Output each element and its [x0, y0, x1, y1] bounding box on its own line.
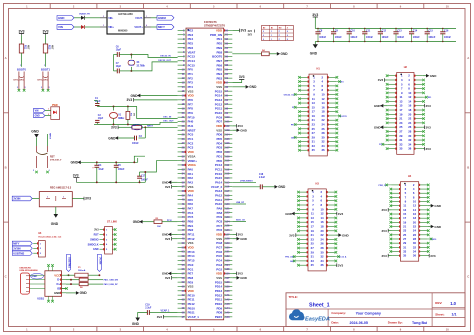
svg-text:35: 35: [399, 147, 403, 151]
svg-text:B0: B0: [263, 27, 265, 29]
svg-text:PA12_USB_DP: PA12_USB_DP: [104, 283, 119, 286]
MCU pin L28 PC3: [178, 147, 186, 149]
MCU pin L4 PE5: [178, 42, 186, 44]
connector H1 pin 20: [327, 115, 336, 117]
svg-text:138: 138: [225, 281, 230, 284]
connector H3 pin 23: [299, 238, 308, 240]
USB shield pins bottom: [48, 296, 50, 300]
MCU pin R17 PG13: [224, 99, 233, 101]
svg-text:OSC32_IN: OSC32_IN: [160, 56, 171, 58]
MCU U2 body: [186, 28, 224, 320]
connector ST_LINK pin 1 3V3: [100, 229, 105, 231]
svg-text:100nF: 100nF: [350, 36, 357, 39]
svg-text:OSC32_OUT: OSC32_OUT: [158, 60, 172, 62]
title block row line 2: [328, 316, 465, 318]
svg-text:3V3: 3V3: [289, 233, 295, 237]
svg-text:Sheet_1: Sheet_1: [309, 302, 330, 308]
wire C19 to ground: [138, 313, 148, 318]
MCU pin L8 PC14: [178, 60, 186, 62]
svg-text:0: 0: [263, 35, 264, 37]
connector H1 pin 32: [327, 141, 336, 143]
MCU pin R24 VSS: [224, 129, 233, 131]
svg-text:36: 36: [322, 148, 326, 152]
MCU pin L42 PA7: [178, 207, 186, 209]
connector H3 pin 9: [299, 208, 308, 210]
MCU pin R38 PA13: [224, 190, 233, 192]
MCU pin R35 PA15: [224, 177, 233, 179]
switch BOOT1 lower contacts: [42, 80, 44, 90]
connector ST_LINK body: [105, 227, 113, 255]
resistor R5 22R: [66, 279, 79, 281]
MCU pin L51 VDD: [178, 246, 186, 248]
svg-text:3V3: 3V3: [382, 254, 388, 258]
MCU pin R23 VDD: [224, 125, 233, 127]
switch SW1 DTS-61KV: [18, 72, 20, 80]
svg-text:C13: C13: [397, 29, 402, 32]
connector H1 pin 21: [300, 119, 309, 121]
wire GND-LED: [45, 115, 51, 117]
svg-text:3V3: 3V3: [111, 126, 117, 130]
svg-text:119: 119: [225, 199, 230, 202]
MCU pin L65 PB10: [178, 307, 186, 309]
svg-text:3V3: 3V3: [382, 208, 388, 212]
frame ticks top/bottom: [49, 4, 51, 9]
connector H1 pin 9: [300, 93, 309, 95]
connector H3 pin 16: [326, 221, 335, 223]
connector H4 pin 2: [419, 184, 428, 186]
MCU pin R26 PD5: [224, 138, 233, 140]
connector H6 pin 1: [33, 242, 38, 244]
svg-text:146: 146: [225, 316, 230, 319]
connector H2 pin 27: [388, 130, 397, 132]
svg-text:C16: C16: [444, 29, 449, 32]
connector H1 pin 22: [327, 119, 336, 121]
svg-text:100nF: 100nF: [132, 143, 139, 145]
MCU pin R36 PA14: [224, 181, 233, 183]
MCU pin L18 PF7: [178, 103, 186, 105]
svg-text:113: 113: [225, 173, 230, 176]
svg-text:VIN+: VIN+: [108, 26, 114, 29]
connector H4 pin 34: [419, 250, 428, 252]
svg-text:122: 122: [225, 212, 230, 215]
USB shield pins top: [48, 266, 50, 271]
resistor R2 10K: [132, 126, 142, 130]
MCU pin L21 PF10: [178, 116, 186, 118]
MCU pin R58 VSS: [224, 277, 233, 279]
MCU pin R2 PDR_ON: [224, 34, 233, 36]
connector H2 pin 14: [414, 100, 423, 102]
MCU pin R19 PG11: [224, 108, 233, 110]
cap rail lower wire: [76, 181, 145, 183]
svg-text:100nF: 100nF: [444, 36, 451, 39]
capacitor C9 100nF: [333, 29, 335, 32]
MCU pin R32 PC12: [224, 164, 233, 166]
svg-text:Date:: Date:: [331, 320, 339, 324]
wire 3V3 to resistor R12: [45, 35, 47, 44]
svg-text:100nF: 100nF: [118, 169, 125, 171]
svg-text:132: 132: [225, 255, 230, 258]
svg-text:R11: R11: [24, 45, 27, 50]
wire GND to RST switch: [36, 138, 38, 146]
svg-text:100nF: 100nF: [319, 36, 326, 39]
wire R12 to node BOOT1: [45, 53, 47, 67]
svg-text:1M: 1M: [132, 113, 134, 116]
svg-text:VCAP_1: VCAP_1: [188, 315, 200, 319]
connector H3 pin 26: [326, 243, 335, 245]
MCU pin L25 PC0: [178, 134, 186, 136]
switch SW3 RST DTS-61K-V: [36, 146, 38, 152]
connector H1 pin 13: [300, 102, 309, 104]
MCU pin R16 PG14: [224, 95, 233, 97]
svg-text:SWDIO: SWDIO: [90, 238, 99, 241]
wire OSC_IN to MCU: [137, 106, 178, 118]
MCU pin R8 PB7: [224, 60, 233, 62]
svg-text:Header-Male-2.54_1x3: Header-Male-2.54_1x3: [38, 235, 62, 238]
svg-text:32.768k: 32.768k: [137, 66, 146, 68]
connector H2 pin 3: [388, 79, 397, 81]
MCU pin R28 PD3: [224, 147, 233, 149]
power 3V3 at MCU VDD row12: [232, 80, 241, 83]
svg-text:100nF: 100nF: [141, 180, 148, 182]
wire connector to USB block: [29, 274, 45, 276]
power module pin VOUT+: [144, 26, 151, 28]
svg-text:USB_DP: USB_DP: [236, 202, 245, 204]
title block outline: [286, 293, 465, 327]
wire riser to MCU rows: [134, 156, 145, 162]
svg-text:Sheet:: Sheet:: [435, 312, 444, 316]
connector H3 pin 15: [299, 221, 308, 223]
svg-text:3: 3: [103, 25, 104, 27]
connector H1 pin 28: [327, 132, 336, 134]
connector H1 pin 36: [327, 149, 336, 151]
wire GND to diode: [74, 17, 81, 19]
MCU pin L34 PA1: [178, 173, 186, 175]
MCU pin R10 PB5: [224, 68, 233, 70]
connector H1 pin 23: [300, 123, 309, 125]
power module U5 Mini360 body: [107, 11, 144, 34]
svg-text:125: 125: [225, 225, 230, 228]
connector H1 pin 17: [300, 111, 309, 113]
diode D5: [81, 25, 85, 29]
connector H2 pin 11: [388, 96, 397, 98]
svg-text:100nF: 100nF: [413, 36, 420, 39]
svg-text:VIN-: VIN-: [108, 17, 113, 20]
svg-text:120: 120: [225, 203, 230, 206]
MCU pin R66 PD8: [224, 312, 233, 314]
svg-text:GND: GND: [374, 104, 382, 108]
connector J1 USB receptacle body: [21, 273, 30, 294]
MCU pin L35 PA2: [178, 177, 186, 179]
power 3V3 at MCU VDD row1: [232, 29, 239, 31]
svg-text:D-: D-: [57, 278, 60, 282]
svg-text:D+: D+: [57, 282, 61, 286]
svg-text:106: 106: [225, 142, 230, 145]
MCU pin L57 PE7: [178, 272, 186, 274]
connector H1 pin 5: [300, 85, 309, 87]
connector H1 pin 14: [327, 102, 336, 104]
connector H4 pin 26: [419, 234, 428, 236]
svg-text:ID: ID: [57, 287, 60, 291]
MCU pin L26 PC1: [178, 138, 186, 140]
connector H3 pin 25: [299, 243, 308, 245]
svg-text:2024-06-05: 2024-06-05: [350, 321, 368, 325]
connector H2 pin 4: [414, 79, 423, 81]
capacitor C15 100nF: [426, 29, 428, 32]
svg-text:3: 3: [47, 196, 48, 198]
capacitor C5 100nF: [115, 162, 117, 165]
svg-text:2: 2: [17, 87, 18, 89]
svg-text:4: 4: [146, 24, 147, 27]
connector H3 pin 3: [299, 195, 308, 197]
connector ST_LINK pin 5 GND: [100, 248, 105, 250]
svg-text:3V3: 3V3: [157, 315, 163, 319]
MCU pin L23 PH1: [178, 125, 186, 127]
MCU pin L52 PF13: [178, 251, 186, 253]
wire D5 to VIN+: [85, 26, 100, 28]
connector H1 pin 27: [300, 132, 309, 134]
svg-text:10K: 10K: [157, 226, 161, 228]
svg-text:NRST: NRST: [147, 126, 154, 128]
svg-text:1: 1: [271, 35, 272, 37]
MCU pin L59 PE9: [178, 281, 186, 283]
MCU pin L64 PE12: [178, 303, 186, 305]
svg-text:112: 112: [225, 168, 230, 171]
wire NRST riser: [47, 134, 49, 146]
MCU pin R12 PB3: [224, 77, 233, 79]
connector H4 pin 33: [392, 250, 401, 252]
svg-text:GND: GND: [54, 291, 60, 295]
svg-text:128: 128: [225, 238, 230, 241]
wire cap bank to ground: [314, 42, 316, 45]
connector H4 pin 20: [419, 221, 428, 223]
svg-text:B: B: [467, 165, 469, 169]
power module pin VIN-: [100, 17, 107, 19]
connector H3 pin 36: [326, 264, 335, 266]
wire VOUT+ to netport: [151, 26, 157, 28]
svg-text:3V3: 3V3: [165, 237, 171, 241]
netport 3V3IN to H6: [12, 246, 32, 250]
svg-text:GND: GND: [342, 233, 350, 237]
connector H2 pin 30: [414, 135, 423, 137]
netport VIN to LED: [34, 108, 45, 112]
wire BOOT0 pulldown: [232, 53, 261, 55]
connector H4 pin 14: [419, 209, 428, 211]
MCU pin L30 VSSA: [178, 155, 186, 157]
connector H2 pin 20: [414, 113, 423, 115]
svg-text:GND: GND: [51, 222, 59, 226]
wire VOUT- to netport: [151, 17, 157, 19]
connector H4 pin 5: [392, 192, 401, 194]
capacitor C10 100nF: [348, 29, 350, 32]
wire crystal2 common left: [94, 100, 97, 102]
ground at C18: [275, 185, 278, 189]
svg-text:3V3IN: 3V3IN: [13, 246, 20, 250]
svg-text:A: A: [467, 56, 469, 60]
svg-text:126: 126: [225, 229, 230, 232]
svg-text:VIN: VIN: [58, 25, 63, 29]
connector H2 pin 18: [414, 109, 423, 111]
resistor R6 22R: [66, 283, 79, 285]
svg-text:GND: GND: [281, 52, 289, 56]
svg-text:R12: R12: [48, 45, 51, 50]
connector H3 pin 30: [326, 251, 335, 253]
MCU pin R25 PD6: [224, 134, 233, 136]
netport MIFY output: [157, 25, 174, 30]
connector H4 pin 11: [392, 205, 401, 207]
svg-text:VOUT+: VOUT+: [134, 26, 143, 29]
connector H4 pin 23: [392, 230, 401, 232]
connector H1 pin 1: [300, 76, 309, 78]
svg-text:Your Company: Your Company: [356, 312, 381, 316]
wire R2 to NRST pin: [142, 126, 178, 128]
svg-text:GND: GND: [278, 185, 286, 189]
svg-text:2: 2: [41, 87, 42, 89]
MCU pin R67 PB15: [224, 316, 233, 318]
svg-text:GND: GND: [249, 85, 257, 89]
MCU pin R20 PG10: [224, 112, 233, 114]
svg-text:GND: GND: [58, 16, 64, 20]
svg-text:3V3: 3V3: [73, 174, 79, 178]
svg-text:145: 145: [225, 312, 230, 315]
LED block body: [51, 107, 60, 120]
connector H6 pin 2: [33, 247, 38, 249]
MCU pin R22 PD7: [224, 121, 233, 123]
connector H4 pin 36: [419, 255, 428, 257]
connector H3 pin 13: [299, 217, 308, 219]
ground at MCU VSS row47R: [232, 238, 236, 240]
svg-text:108: 108: [225, 151, 230, 154]
svg-text:3V3: 3V3: [241, 29, 247, 33]
connector H4 pin 7: [392, 196, 401, 198]
MCU pin L40 PA5: [178, 199, 186, 201]
svg-text:111: 111: [225, 164, 230, 167]
MCU pin R52 PG6: [224, 251, 233, 253]
MCU pin R59 PD15: [224, 281, 233, 283]
svg-text:GND: GND: [240, 237, 248, 241]
capacitor C14 100nF: [411, 29, 413, 32]
MCU pin L61 VDD: [178, 290, 186, 292]
svg-text:3V3: 3V3: [165, 276, 171, 280]
svg-text:35: 35: [403, 254, 407, 258]
MCU pin L20 PF9: [178, 112, 186, 114]
MCU pin R44 PC9: [224, 216, 233, 218]
title block logo divider: [327, 309, 329, 327]
svg-text:GND: GND: [434, 204, 442, 208]
connector H4 pin 1: [392, 184, 401, 186]
MCU pin L6 VBAT: [178, 51, 186, 53]
connector H3 pin 2: [326, 191, 335, 193]
svg-text:USB1: USB1: [32, 276, 39, 278]
svg-text:2: 2: [103, 16, 104, 18]
svg-text:123: 123: [225, 216, 230, 219]
connector H1 pin 16: [327, 106, 336, 108]
svg-text:115: 115: [225, 181, 230, 184]
connector H3 pin 5: [299, 200, 308, 202]
MCU pin L3 PE4: [178, 38, 186, 40]
connector H2 pin 10: [414, 92, 423, 94]
connector H3 pin 27: [299, 247, 308, 249]
connector H4 pin 12: [419, 205, 428, 207]
MCU pin L31 VREF+: [178, 160, 186, 162]
MCU pin L37 VSS: [178, 186, 186, 188]
svg-text:3V3: 3V3: [42, 29, 48, 33]
connector H2 pin 31: [388, 139, 397, 141]
svg-text:103: 103: [225, 129, 230, 132]
svg-text:3: 3: [49, 87, 50, 89]
svg-text:GND: GND: [108, 136, 116, 140]
svg-text:124: 124: [225, 220, 230, 223]
svg-text:135: 135: [225, 268, 230, 271]
frame ticks sides: [4, 112, 9, 114]
capacitor C16 100nF: [442, 29, 444, 32]
MCU pin L1 PE2: [178, 29, 186, 31]
MCU pin R46 PC7: [224, 225, 233, 227]
wire label USART1: [232, 203, 246, 205]
svg-text:4K7: 4K7: [51, 45, 54, 50]
ST_LINK right pin marks: [112, 229, 114, 231]
netport USBTMS vertical: [66, 255, 70, 272]
MCU pin L36 PA3: [178, 181, 186, 183]
MCU pin L53 PF14: [178, 255, 186, 257]
connector H2 pin 36: [414, 148, 423, 150]
connector H3 pin 18: [326, 226, 335, 228]
connector H4 pin 16: [419, 213, 428, 215]
power 3V3 at MCU VDD row22: [232, 125, 236, 127]
connector H4 pin 10: [419, 201, 428, 203]
crystal X1 8MHz: [113, 106, 115, 110]
MCU pin R62 PD12: [224, 294, 233, 296]
svg-text:2.2uF: 2.2uF: [259, 177, 266, 179]
connector H1 pin 19: [300, 115, 309, 117]
MCU pin R4 PE0: [224, 42, 233, 44]
svg-text:136: 136: [225, 272, 230, 275]
connector H2 pin 21: [388, 118, 397, 120]
boot mode table: [262, 25, 294, 40]
wire 3V3 to resistor R11: [21, 35, 23, 44]
MCU pin R34 PC10: [224, 173, 233, 175]
connector ST_LINK pin 3 SWDIO: [100, 238, 105, 240]
svg-text:REG AMS1117-3.3: REG AMS1117-3.3: [50, 187, 72, 190]
connector H2 pin 9: [388, 92, 397, 94]
connector H2 pin 29: [388, 135, 397, 137]
USB block body: [45, 271, 62, 297]
svg-text:GND: GND: [132, 322, 140, 326]
svg-text:Company:: Company:: [331, 311, 346, 315]
svg-text:100nF: 100nF: [366, 36, 373, 39]
svg-text:133: 133: [225, 259, 230, 262]
svg-text:GND: GND: [80, 291, 88, 295]
MCU pin R60 PD14: [224, 285, 233, 287]
connector H3 pin 28: [326, 247, 335, 249]
svg-text:1: 1: [271, 39, 272, 41]
svg-text:104: 104: [225, 134, 230, 137]
MCU pin R30 PD1: [224, 155, 233, 157]
wire crystal2 top rail: [97, 105, 136, 107]
MCU pin R11 PB4: [224, 73, 233, 75]
USB bus ellipse label: [31, 273, 44, 279]
MCU pin L41 PA6: [178, 203, 186, 205]
capacitor C4 10uF: [96, 162, 98, 165]
connector H2 pin 17: [388, 109, 397, 111]
svg-text:GND: GND: [240, 276, 248, 280]
netport GND2 output: [157, 16, 174, 21]
MCU pin R49 VSS: [224, 238, 233, 240]
connector H4 pin 25: [392, 234, 401, 236]
connector H1 pin 30: [327, 136, 336, 138]
svg-text:F: F: [279, 39, 280, 41]
connector H4 pin 31: [392, 246, 401, 248]
MCU pin L45 PB0: [178, 220, 186, 222]
